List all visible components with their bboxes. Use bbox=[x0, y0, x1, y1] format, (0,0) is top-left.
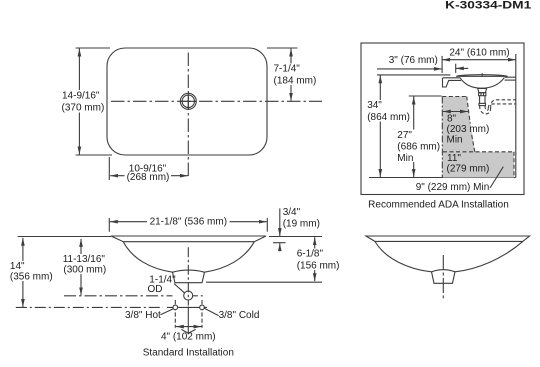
svg-text:34": 34" bbox=[367, 100, 382, 111]
svg-text:Min: Min bbox=[447, 135, 463, 146]
svg-text:14-9/16": 14-9/16" bbox=[62, 91, 100, 102]
svg-text:K-30334-DM1: K-30334-DM1 bbox=[445, 0, 531, 12]
svg-text:(279 mm): (279 mm) bbox=[447, 164, 490, 175]
svg-text:27": 27" bbox=[397, 130, 412, 141]
svg-text:(356 mm): (356 mm) bbox=[10, 272, 53, 283]
svg-text:OD: OD bbox=[148, 284, 163, 295]
svg-text:8": 8" bbox=[447, 114, 457, 125]
svg-text:(19 mm): (19 mm) bbox=[283, 219, 320, 230]
svg-text:(300 mm): (300 mm) bbox=[63, 265, 106, 276]
svg-text:(686 mm): (686 mm) bbox=[397, 142, 440, 153]
svg-text:14": 14" bbox=[10, 261, 25, 272]
svg-text:6-1/8": 6-1/8" bbox=[297, 249, 324, 260]
svg-text:(184 mm): (184 mm) bbox=[274, 76, 317, 87]
svg-text:11": 11" bbox=[447, 153, 461, 164]
svg-text:7-1/4": 7-1/4" bbox=[274, 64, 301, 75]
svg-text:Recommended ADA Installation: Recommended ADA Installation bbox=[368, 200, 509, 211]
svg-text:9" (229 mm) Min: 9" (229 mm) Min bbox=[416, 182, 490, 193]
svg-text:(203 mm): (203 mm) bbox=[447, 124, 490, 135]
svg-text:21-1/8" (536 mm): 21-1/8" (536 mm) bbox=[150, 217, 227, 228]
svg-text:4" (102 mm): 4" (102 mm) bbox=[161, 331, 216, 342]
svg-text:3/8" Hot: 3/8" Hot bbox=[125, 310, 161, 321]
svg-text:Standard Installation: Standard Installation bbox=[143, 347, 234, 358]
svg-text:24" (610 mm): 24" (610 mm) bbox=[449, 47, 509, 58]
svg-text:3" (76 mm): 3" (76 mm) bbox=[389, 55, 438, 66]
svg-text:(864 mm): (864 mm) bbox=[367, 112, 410, 123]
svg-text:11-13/16": 11-13/16" bbox=[63, 254, 106, 265]
svg-text:3/4": 3/4" bbox=[283, 207, 301, 218]
svg-text:(156 mm): (156 mm) bbox=[297, 261, 340, 272]
svg-text:(268 mm): (268 mm) bbox=[127, 172, 170, 183]
svg-text:3/8" Cold: 3/8" Cold bbox=[219, 310, 260, 321]
svg-text:(370 mm): (370 mm) bbox=[62, 103, 105, 114]
svg-text:Min: Min bbox=[397, 153, 413, 164]
